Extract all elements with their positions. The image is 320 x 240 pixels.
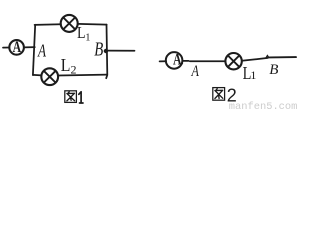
caption digit 1 (figure 1): [79, 92, 83, 103]
svg-text:A: A: [37, 42, 46, 61]
junction tick on wire (figure 2): [266, 56, 269, 59]
svg-text:L: L: [61, 55, 71, 75]
wire: ammeter A1 to node A: [24, 46, 35, 48]
svg-text:B: B: [269, 62, 278, 78]
svg-text:1: 1: [250, 68, 256, 82]
lamp L2 (figure 1): [41, 68, 58, 85]
svg-text:manfen5.com: manfen5.com: [229, 101, 298, 110]
node B junction vertical wire (figure 1): [106, 25, 107, 79]
wire: output from node B: [106, 50, 134, 52]
ammeter A1 (figure 1): [9, 40, 24, 55]
svg-text:A: A: [173, 51, 182, 68]
junction dot at node B: [104, 49, 108, 53]
caption figure 1: hand-drawn CJK 图: [65, 91, 77, 103]
svg-text:A: A: [13, 39, 22, 56]
svg-text:B: B: [94, 37, 103, 60]
wire: bottom branch right segment: [58, 74, 107, 77]
wire: bottom branch left segment: [33, 74, 42, 77]
wire: ammeter A2 right lead: [183, 60, 189, 62]
wire: top branch left segment: [35, 23, 61, 26]
wire: top branch right segment: [78, 23, 107, 26]
lamp L1 (figure 2): [225, 53, 241, 69]
wire: lamp L1 to end (figure 2): [242, 58, 268, 61]
caption figure 2: hand-drawn CJK 图: [213, 88, 225, 101]
wire: figure2 left lead: [160, 60, 167, 62]
ammeter A2 (figure 2): [166, 52, 183, 69]
node A junction vertical wire (figure 1): [33, 25, 35, 75]
svg-text:1: 1: [85, 32, 90, 43]
wire: figure1 ammeter left lead: [3, 47, 9, 49]
lamp L1 (figure 1): [61, 15, 78, 32]
wire: node A to lamp L1 (figure 2): [190, 60, 226, 62]
svg-text:A: A: [191, 64, 200, 81]
